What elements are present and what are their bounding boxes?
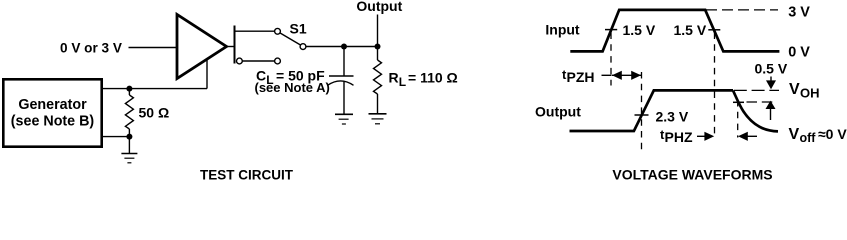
svg-text:Generator: Generator	[18, 97, 87, 113]
svg-text:TEST CIRCUIT: TEST CIRCUIT	[200, 168, 294, 183]
svg-text:0 V or 3 V: 0 V or 3 V	[60, 41, 122, 56]
svg-text:50 Ω: 50 Ω	[139, 105, 170, 121]
svg-text:V: V	[789, 126, 800, 143]
svg-text:OH: OH	[800, 86, 820, 101]
svg-text:L: L	[399, 75, 406, 89]
svg-text:3 V: 3 V	[788, 5, 810, 21]
svg-text:S1: S1	[290, 21, 307, 37]
svg-text:PZH: PZH	[567, 69, 595, 85]
svg-text:2.3 V: 2.3 V	[656, 108, 689, 124]
svg-text:= 110 Ω: = 110 Ω	[408, 70, 458, 86]
svg-text:Output: Output	[356, 0, 402, 14]
svg-text:(see Note A): (see Note A)	[255, 80, 330, 95]
svg-text:Input: Input	[545, 21, 580, 37]
svg-text:1.5 V: 1.5 V	[623, 22, 656, 38]
svg-text:PHZ: PHZ	[665, 129, 693, 145]
svg-text:0.5 V: 0.5 V	[755, 61, 788, 77]
svg-text:(see Note B): (see Note B)	[11, 114, 95, 130]
svg-text:≈0 V: ≈0 V	[818, 126, 847, 142]
svg-text:VOLTAGE WAVEFORMS: VOLTAGE WAVEFORMS	[612, 167, 772, 183]
svg-text:R: R	[389, 70, 399, 86]
svg-text:off: off	[800, 131, 817, 145]
svg-text:0 V: 0 V	[788, 45, 810, 61]
svg-text:V: V	[789, 81, 800, 98]
svg-text:1.5 V: 1.5 V	[674, 22, 707, 38]
svg-text:Output: Output	[535, 104, 581, 120]
